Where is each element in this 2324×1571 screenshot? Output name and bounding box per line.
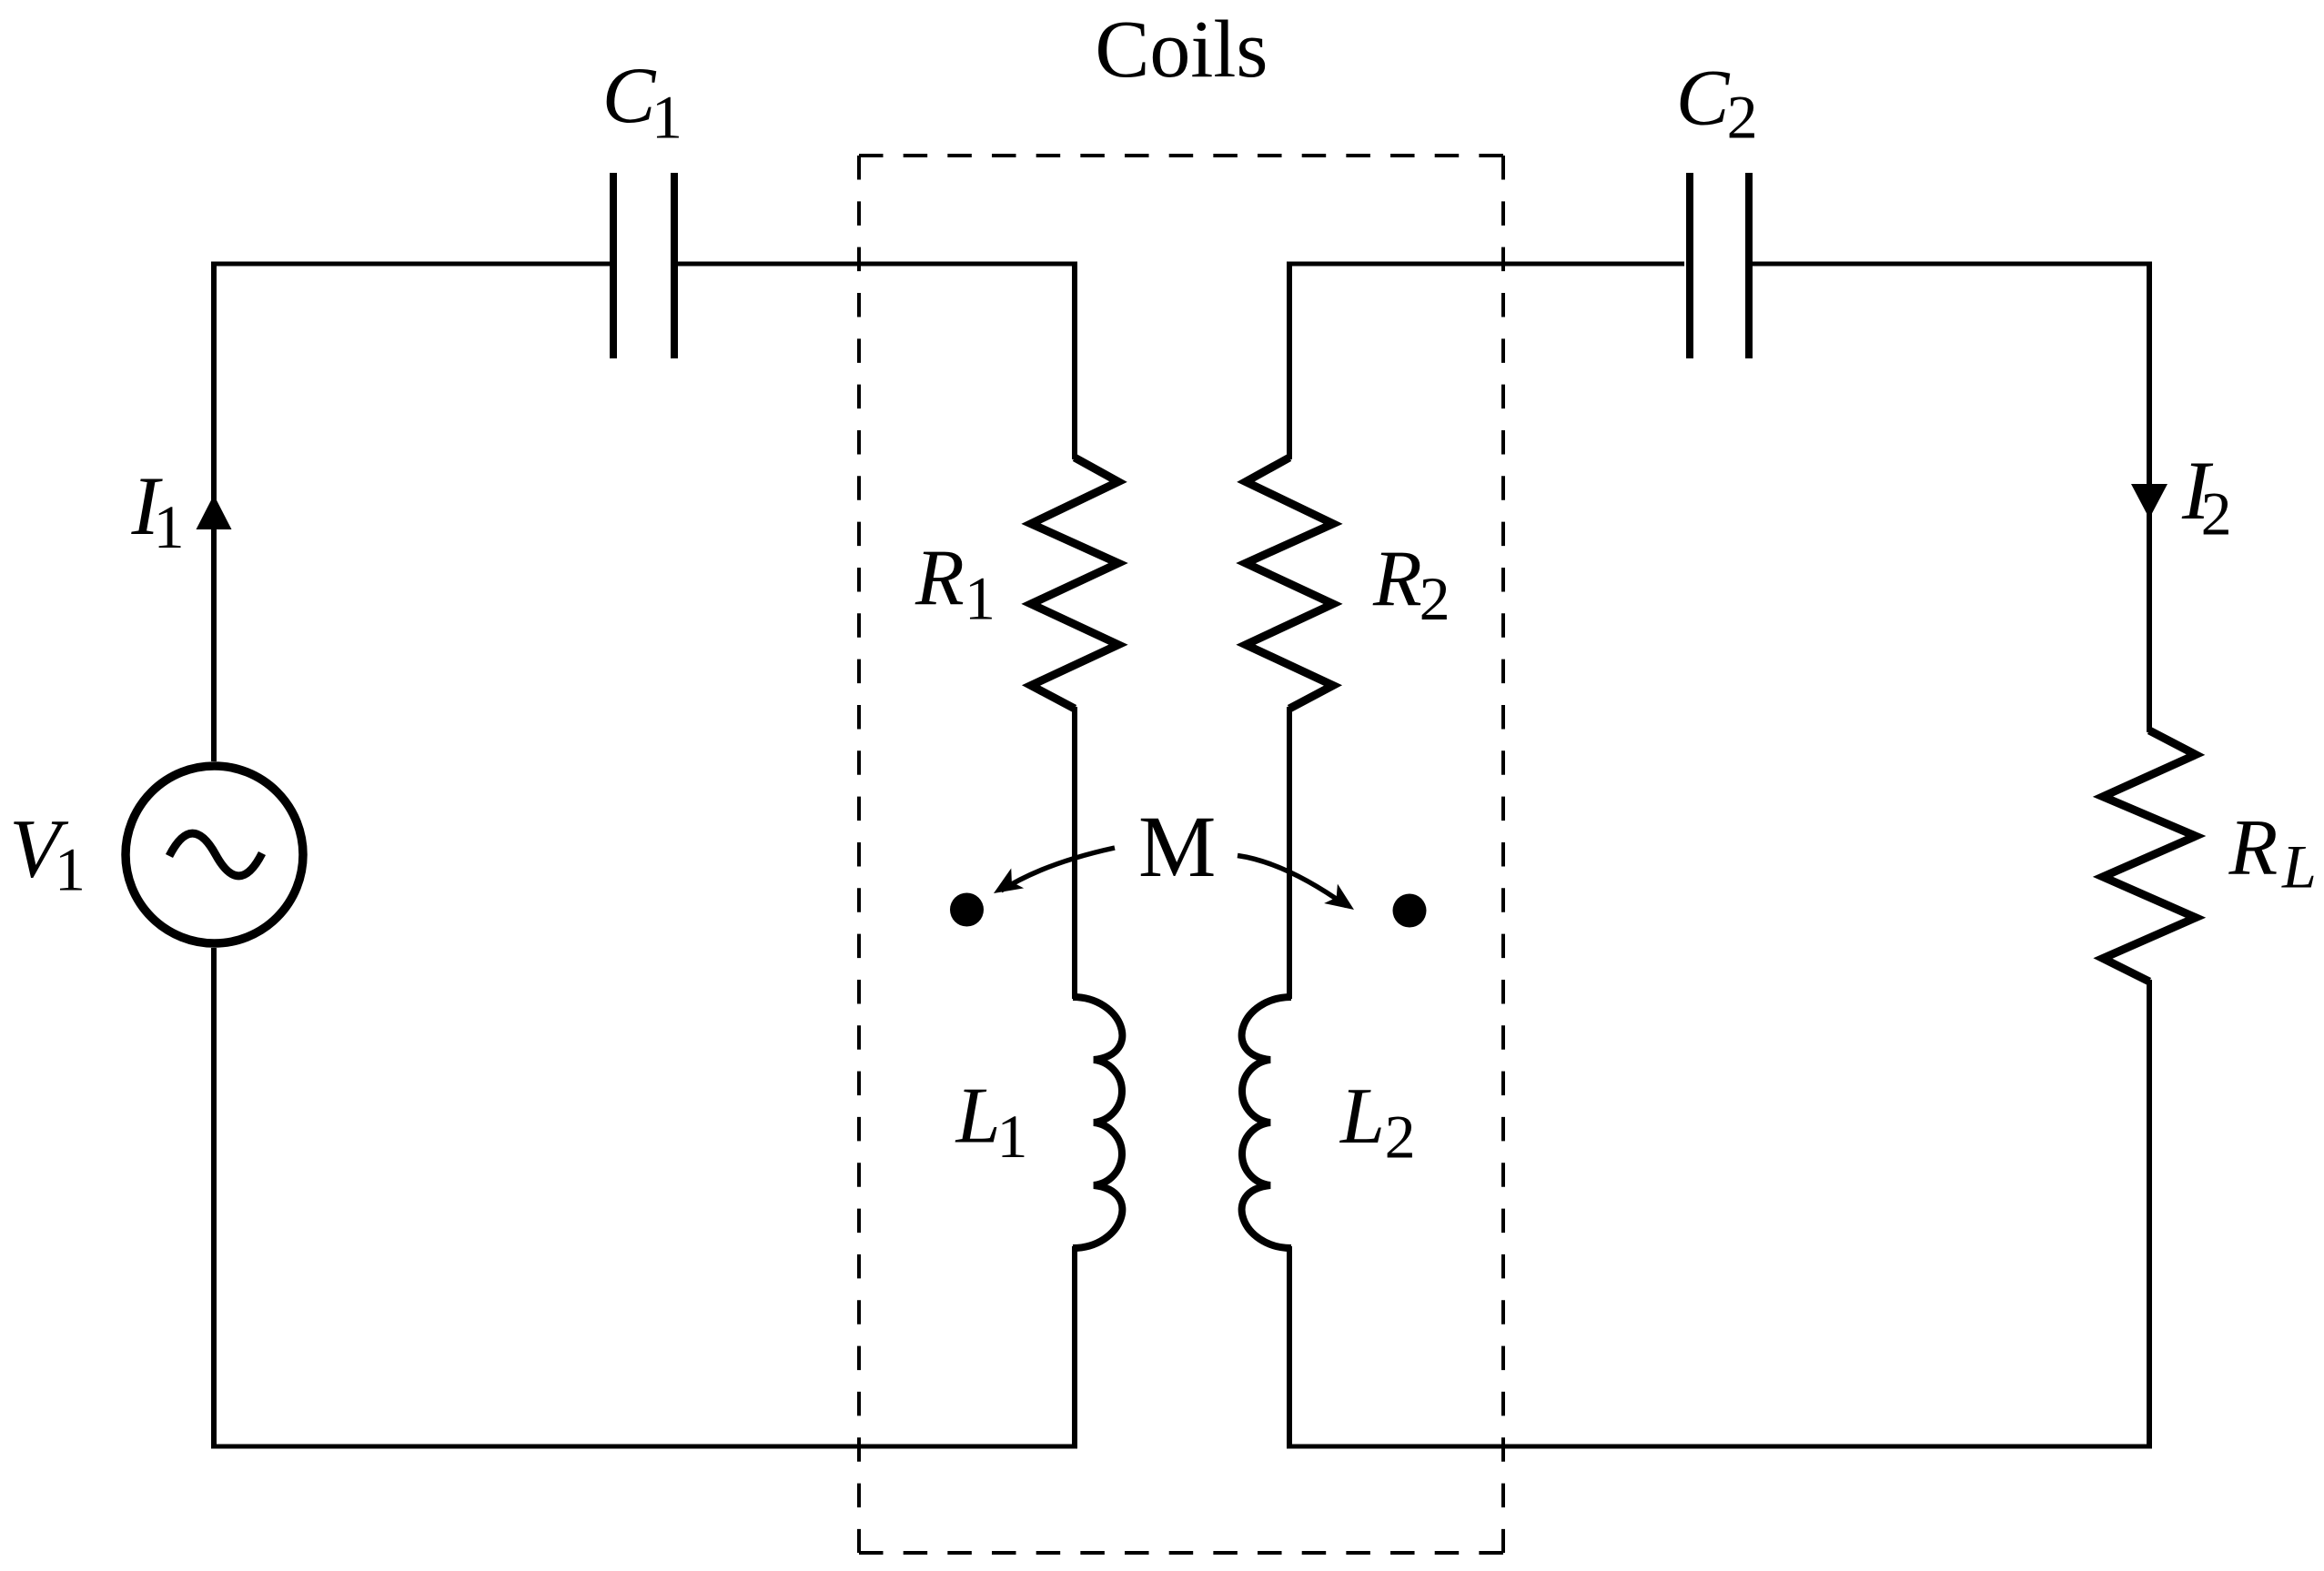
svg-text:2: 2 bbox=[1727, 83, 1758, 152]
M arrow right curve bbox=[1238, 856, 1347, 907]
wire: branch2 between R2 and L2 bbox=[1287, 707, 1292, 999]
svg-text:L: L bbox=[2281, 832, 2317, 901]
M arrow left head bbox=[987, 868, 1024, 903]
wire: left vertical lower bbox=[211, 948, 217, 1449]
svg-text:M: M bbox=[1138, 798, 1216, 895]
dashed coils box bbox=[859, 156, 1503, 1553]
resistor R1 bbox=[1031, 458, 1118, 709]
resistor RL bbox=[2103, 730, 2196, 982]
coupling dot (L2) bbox=[1393, 894, 1427, 928]
svg-text:R: R bbox=[1372, 536, 1422, 624]
wire: C2 to top-right bbox=[1752, 262, 2152, 267]
wire: branch2 vertical upper bbox=[1287, 262, 1292, 460]
capacitor C2 bbox=[1690, 173, 1749, 358]
svg-text:Coils: Coils bbox=[1095, 5, 1268, 95]
wire: right vertical lower bbox=[2147, 980, 2152, 1449]
svg-text:L: L bbox=[1339, 1073, 1385, 1161]
svg-text:R: R bbox=[2228, 804, 2279, 892]
wire (vertical runs) bbox=[214, 262, 2149, 1449]
inductor L1 bbox=[1073, 997, 1122, 1248]
svg-text:1: 1 bbox=[997, 1102, 1028, 1171]
coupling dot (L1) bbox=[950, 893, 984, 927]
wire: branch1 vertical upper bbox=[1072, 262, 1077, 460]
wire: top-left horizontal bbox=[211, 262, 611, 267]
M arrow right head bbox=[1324, 884, 1360, 920]
capacitor C1 bbox=[613, 173, 674, 358]
svg-text:2: 2 bbox=[1420, 564, 1450, 633]
wire: branch2 top to C2 bbox=[1287, 262, 1684, 267]
wire: C1 to branch1 top bbox=[676, 262, 1077, 267]
current arrow I1 bbox=[197, 495, 232, 529]
svg-text:1: 1 bbox=[652, 83, 682, 152]
wire: branch1 lower bbox=[1072, 1246, 1077, 1449]
M arrow left curve bbox=[1001, 848, 1115, 891]
svg-text:C: C bbox=[1676, 54, 1731, 142]
inductor L2 bbox=[1242, 997, 1291, 1248]
svg-text:2: 2 bbox=[1385, 1103, 1416, 1172]
svg-text:1: 1 bbox=[965, 563, 995, 632]
wire: bottom-right bbox=[1287, 1445, 2152, 1449]
voltage source V1 bbox=[126, 766, 303, 943]
wire (horizontal runs) bbox=[211, 264, 2152, 1446]
wire: branch1 between R1 and L1 bbox=[1072, 707, 1077, 999]
svg-text:C: C bbox=[602, 52, 657, 140]
svg-text:R: R bbox=[914, 535, 965, 623]
svg-text:1: 1 bbox=[154, 492, 185, 561]
svg-text:2: 2 bbox=[2201, 479, 2232, 549]
resistor R2 bbox=[1246, 458, 1333, 709]
wire: bottom-left bbox=[211, 1445, 1077, 1449]
wire: left vertical upper bbox=[211, 262, 217, 762]
wire: right vertical upper bbox=[2147, 262, 2152, 733]
current arrow I2 bbox=[2131, 484, 2167, 519]
wire: branch2 lower bbox=[1287, 1246, 1292, 1449]
svg-text:L: L bbox=[955, 1073, 1001, 1161]
svg-text:1: 1 bbox=[55, 834, 86, 903]
